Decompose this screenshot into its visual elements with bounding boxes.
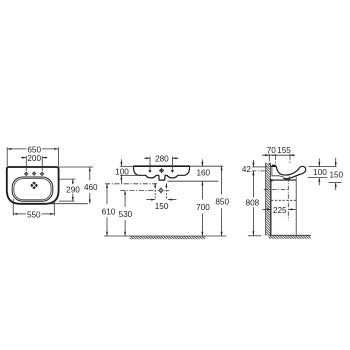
dim 100 (front left) (115, 159, 137, 183)
dim 225 (262, 206, 295, 216)
svg-text:42: 42 (242, 165, 252, 174)
basin top edge emphasis (134, 165, 190, 167)
dim 150 (side) (329, 158, 344, 190)
svg-text:280: 280 (155, 155, 169, 164)
drain axis centerline (287, 177, 289, 220)
svg-text:155: 155 (277, 146, 291, 155)
drain boss (284, 176, 290, 178)
floor hatch (side view) (269, 236, 311, 239)
deck underside / back bracket (272, 166, 284, 177)
dim 70 and 155 (262, 146, 295, 166)
centerline A (fixing height) (105, 183, 157, 185)
dim 200 (21, 154, 47, 171)
tap deck tick (273, 165, 275, 166)
fixing hole line right (165, 183, 167, 200)
ref line R1 (bottom of bowl apron) (168, 180, 219, 182)
svg-text:700: 700 (196, 203, 210, 212)
svg-text:530: 530 (119, 210, 133, 219)
siphon diamond node (159, 188, 163, 194)
svg-text:150: 150 (329, 171, 343, 180)
svg-text:100: 100 (313, 168, 327, 177)
fixing hole line left (154, 183, 156, 200)
inner rim inner line (14, 179, 51, 200)
svg-text:70: 70 (267, 146, 277, 155)
svg-text:100: 100 (115, 168, 129, 177)
basin outline (front) (134, 166, 190, 180)
dim 808 (246, 171, 262, 236)
pedestal bottom dashed line (271, 199, 296, 201)
basin side profile: deck, bowl, front nose (271, 166, 306, 178)
wall hatch (265, 163, 270, 236)
floor surface line (side view) (269, 234, 311, 236)
centerline B (siphon height) (120, 189, 169, 191)
centerline siphon height (side) (264, 189, 289, 191)
dim 610 (102, 184, 116, 236)
dim 530 (119, 190, 133, 236)
inner rim outer line (12, 177, 53, 201)
tap mark center (front) (159, 168, 164, 173)
dim 290 (59, 179, 80, 201)
centerline overflow height (252, 170, 267, 172)
dim 700 (196, 181, 210, 236)
wall face line (269, 163, 271, 236)
svg-text:550: 550 (27, 210, 41, 219)
dim 100 (side) (308, 159, 337, 186)
tap hole right (40, 172, 44, 176)
dim 150 (front) (146, 199, 176, 211)
drain boss dark underside (284, 178, 290, 180)
dim 280 (144, 155, 178, 169)
tap hole mid (32, 172, 36, 176)
floor hatch (front view) (130, 236, 206, 239)
dim 460 (50, 167, 98, 204)
dim 42 (242, 160, 267, 175)
svg-text:460: 460 (84, 183, 98, 192)
dim 160 (196, 160, 210, 178)
svg-text:290: 290 (66, 185, 80, 194)
basin bottom plane (271, 179, 296, 181)
svg-text:150: 150 (155, 202, 169, 211)
dim 650 (7, 145, 58, 166)
floor line (front view) (104, 235, 226, 237)
svg-text:200: 200 (27, 154, 41, 163)
svg-text:160: 160 (196, 169, 210, 178)
basin top extension right (190, 165, 224, 167)
svg-text:610: 610 (102, 207, 116, 216)
tap mark left (front) (148, 169, 151, 172)
svg-text:225: 225 (273, 206, 287, 215)
pedestal right edge (295, 177, 297, 236)
drain quatrefoil (31, 182, 38, 189)
wall back line (264, 163, 266, 236)
dim 850 (215, 166, 229, 236)
svg-text:850: 850 (215, 198, 229, 207)
tap hole left (24, 172, 28, 176)
dim 550 (13, 199, 54, 220)
svg-text:808: 808 (246, 199, 260, 208)
fixing bolt mark (270, 179, 273, 181)
svg-text:650: 650 (27, 145, 41, 154)
tap mark right (front) (171, 169, 174, 172)
basin outline (plan) (7, 167, 59, 204)
pedestal left edge (270, 180, 272, 235)
